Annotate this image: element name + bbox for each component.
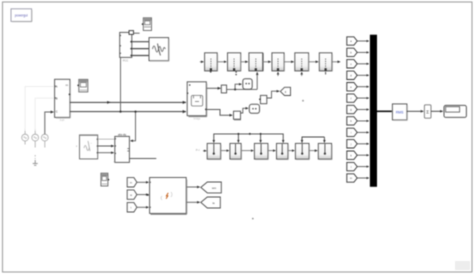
- display D3: [101, 173, 109, 186]
- rounded scope R2: [249, 104, 259, 113]
- svg-text:m: m: [130, 182, 132, 185]
- wire T11 to mux: [357, 154, 369, 156]
- svg-text:abc-dq: abc-dq: [118, 132, 126, 136]
- machine block M1: [150, 178, 187, 215]
- small block SB3: [259, 95, 267, 103]
- wire C2 to C3: [241, 61, 248, 63]
- wire C6 output: [332, 61, 340, 63]
- chain block C1: [205, 53, 218, 72]
- wire P3 to P4: [268, 150, 275, 152]
- ground G1: [33, 160, 38, 165]
- V~ source block B4: [76, 135, 98, 159]
- wire SB3 to goto G1: [267, 91, 280, 98]
- scope S1: [149, 38, 169, 62]
- wire C1 to C2: [217, 61, 226, 63]
- wires B4 to dq block: [98, 139, 116, 153]
- from tag F2: [127, 190, 137, 199]
- from tag T4: [347, 71, 357, 79]
- wire P5 to P6 mid: [309, 150, 317, 152]
- chain block C3: [249, 53, 263, 71]
- from tag T9: [347, 128, 357, 136]
- svg-text:B: B: [56, 96, 58, 100]
- svg-text:C: C: [56, 109, 58, 113]
- svg-text:P~l: P~l: [196, 148, 200, 152]
- svg-text:bridge: bridge: [194, 117, 201, 120]
- from tag T6: [347, 94, 357, 102]
- wire bridge bottom output: [207, 110, 233, 116]
- stub under C1: [210, 71, 212, 73]
- wire into C1: [200, 61, 204, 63]
- pulse block P5: [295, 143, 309, 159]
- small block SB2: [234, 111, 242, 120]
- powergui block: [11, 9, 32, 22]
- RMS block: [392, 104, 407, 121]
- wire T8 to mux: [357, 120, 369, 122]
- wire F2 to machine: [137, 194, 149, 196]
- wire F3 to machine: [137, 206, 149, 208]
- wire bus2 branch to dq block: [130, 111, 136, 141]
- faint wire Va to B1 port A: [25, 87, 53, 132]
- from tag T13: [347, 174, 357, 182]
- pulse block P4: [277, 143, 289, 159]
- wire T6 to mux: [357, 97, 369, 99]
- wire bus1 B1 to bridge: [70, 101, 186, 103]
- wire bridge top output to SB1: [207, 87, 221, 89]
- faint wire Vb to B1 port B: [35, 98, 53, 131]
- wire Vc to source block input: [45, 112, 54, 134]
- dq transform block B5: [113, 132, 129, 163]
- wire RMS to U2: [407, 110, 424, 112]
- wire C5 to C6: [309, 61, 319, 63]
- goto tag G3: [201, 197, 221, 208]
- from tag T3: [347, 60, 357, 68]
- wire P5 to P6 top: [302, 137, 324, 143]
- svg-text:v: v: [76, 145, 78, 148]
- goto tag G1: [280, 87, 290, 95]
- wire PLL tap riser: [119, 58, 121, 113]
- AC voltage source Va: [22, 129, 29, 145]
- wire T2 to mux: [357, 51, 369, 53]
- svg-text:PCC: PCC: [123, 58, 129, 62]
- mux block: [370, 35, 377, 187]
- wire U2 to display: [431, 110, 443, 112]
- display block D4: [444, 105, 466, 117]
- from tag T11: [347, 151, 357, 159]
- svg-text:Σ: Σ: [426, 109, 429, 114]
- display D1: [142, 18, 152, 31]
- svg-text:m: m: [350, 177, 352, 180]
- chain block C2: [228, 53, 242, 72]
- svg-text:A: A: [56, 85, 58, 89]
- chain block C4: [272, 53, 285, 72]
- svg-text:RMS: RMS: [396, 110, 404, 114]
- block U2: [424, 105, 431, 118]
- chain block C6: [319, 53, 332, 72]
- from tag T7: [347, 105, 357, 113]
- wire machine to goto G2: [187, 186, 200, 188]
- svg-text:wm: wm: [212, 186, 217, 190]
- junction dot stray: [252, 218, 254, 220]
- from tag T1: [347, 37, 357, 45]
- stub under C5: [301, 72, 303, 76]
- wire B5 output right: [129, 158, 156, 160]
- display D2: [77, 79, 88, 92]
- AC voltage source Vb: [32, 129, 39, 159]
- wire P2 to P3: [241, 150, 253, 152]
- pulse block P2: [230, 143, 242, 159]
- pulse row top wire: [214, 133, 283, 143]
- wire T10 to mux: [357, 143, 369, 145]
- stray dot: [302, 100, 304, 102]
- wire C3 to C4: [263, 61, 271, 63]
- svg-text:w: w: [130, 194, 132, 197]
- pulse block P3: [254, 143, 268, 159]
- wire mux to RMS: [377, 110, 392, 112]
- stub under C4: [277, 72, 279, 76]
- from tag T2: [347, 48, 357, 56]
- svg-text:powergui: powergui: [15, 13, 28, 17]
- wire T5 to mux: [357, 86, 369, 88]
- wire machine to goto G3: [187, 201, 200, 203]
- measurement block B2: [120, 31, 140, 63]
- pulse block P6: [318, 143, 332, 159]
- faint corner smudge: [455, 261, 470, 270]
- wire SB2 to R2: [241, 108, 249, 113]
- three-phase source block B1: [55, 79, 71, 122]
- from tag F1: [127, 178, 137, 187]
- svg-text:~t: ~t: [113, 159, 116, 163]
- wire into P1: [203, 150, 206, 152]
- from tag F3: [127, 203, 137, 212]
- wire B2 to scope (3 lines): [132, 42, 149, 56]
- wire T13 to mux: [357, 177, 369, 179]
- universal bridge block B3: [187, 82, 207, 121]
- wire T3 to mux: [357, 63, 369, 65]
- wire bus1 mid arrowhead: [107, 101, 110, 103]
- wire T12 to mux: [357, 166, 369, 168]
- wire bus2 B1 to bridge: [70, 111, 186, 113]
- AC voltage source Vc: [41, 134, 48, 147]
- small block SB1: [221, 85, 226, 93]
- wire C4 to C5: [284, 61, 294, 63]
- wire T9 to mux: [357, 131, 369, 133]
- stub under C6: [325, 72, 327, 75]
- pulse block P1: [207, 143, 221, 159]
- rounded scope R1: [243, 79, 252, 90]
- wire T4 to mux: [357, 74, 369, 76]
- from tag T8: [347, 117, 357, 125]
- stub under C2: [235, 71, 237, 73]
- goto tag G2: [201, 182, 222, 193]
- wire P4 to P5: [288, 150, 294, 152]
- from tag T10: [347, 140, 357, 148]
- wire P1 to P2: [221, 150, 229, 152]
- svg-text:3-ph: 3-ph: [60, 119, 65, 122]
- from tag T12: [347, 162, 357, 170]
- wire T7 to mux: [357, 109, 369, 111]
- chain block C5: [295, 53, 309, 72]
- wire F1 to machine: [137, 181, 149, 183]
- from tag T5: [347, 83, 357, 91]
- wire SB1 to chain3 bottom with branch: [227, 72, 258, 90]
- wire T1 to mux: [357, 40, 369, 42]
